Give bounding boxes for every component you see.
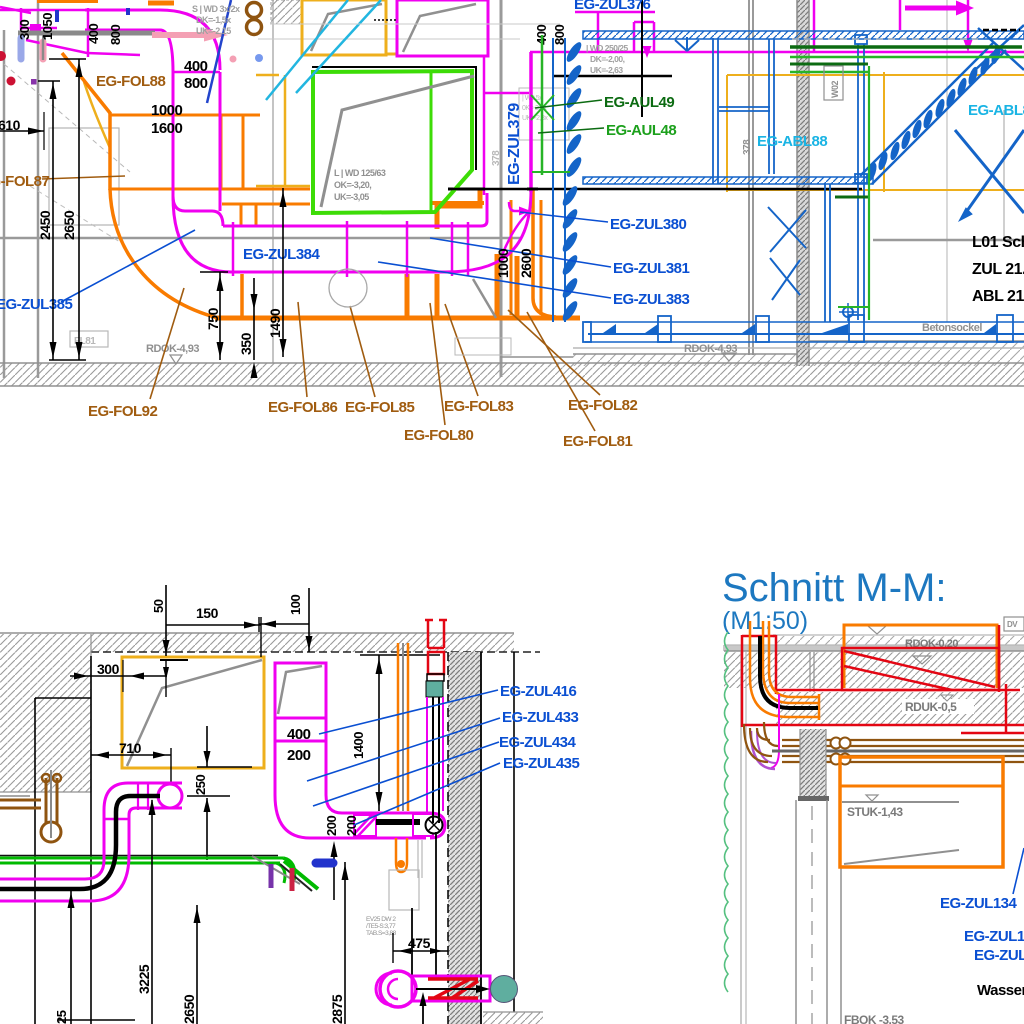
orange duct rung xyxy=(240,204,243,226)
orange end cap xyxy=(818,694,821,720)
red duct section in pump line xyxy=(428,979,478,998)
svg-text:EG-ZUL134: EG-ZUL134 xyxy=(940,895,1018,912)
magenta duct rung x468 xyxy=(467,222,470,276)
orange stub top xyxy=(148,1,174,6)
svg-text:2650: 2650 xyxy=(61,210,77,240)
grid line vertical thin xyxy=(946,0,948,322)
diagonal louver band border 1 xyxy=(860,43,993,176)
svg-text:EG-FOL83: EG-FOL83 xyxy=(444,398,514,415)
svg-text:250: 250 xyxy=(193,775,208,795)
orange drop from duct xyxy=(533,190,556,317)
red bottom right line xyxy=(961,732,1024,735)
orange rung below duct xyxy=(240,274,244,318)
magenta upper elbow inner xyxy=(129,808,182,815)
svg-text:2600: 2600 xyxy=(518,248,534,278)
magenta vertical duct walls xyxy=(172,72,175,196)
grid line horizontal thin xyxy=(258,38,520,40)
svg-text:UK=-3,05: UK=-3,05 xyxy=(334,192,369,202)
black pipe through duct xyxy=(376,819,420,825)
orange duct horizontal y189 xyxy=(111,188,310,191)
gray pipe bar xyxy=(18,31,155,36)
svg-text:475: 475 xyxy=(408,935,431,951)
leader EG-ZUL385 xyxy=(61,230,195,302)
gold line horizontal xyxy=(256,185,310,188)
orange main line xyxy=(215,316,580,321)
brown clamp rings xyxy=(247,3,262,18)
orange duct rung xyxy=(255,204,258,226)
svg-text:710: 710 xyxy=(119,740,142,756)
svg-text:EG-FOL82: EG-FOL82 xyxy=(568,397,638,414)
svg-text:RDUK-0,5: RDUK-0,5 xyxy=(905,700,957,714)
svg-text:EG-ZUL376: EG-ZUL376 xyxy=(574,0,651,13)
left wall lines under slab xyxy=(740,652,742,1024)
svg-text:Schnitt M-M:: Schnitt M-M: xyxy=(722,566,946,610)
svg-text:800: 800 xyxy=(184,75,208,92)
dim vertical 2875 xyxy=(344,862,346,1024)
dim 750 line xyxy=(219,272,221,360)
red duct horizontal lines xyxy=(776,689,1020,692)
brown riser symbol xyxy=(41,822,61,842)
green corner at base xyxy=(838,306,869,308)
magenta riser x814 xyxy=(813,0,816,52)
blue unit left wall xyxy=(552,38,554,322)
gold line horizontal xyxy=(256,74,279,77)
pink dot xyxy=(230,56,237,63)
magenta elbow outer sweep xyxy=(173,196,232,272)
small blue box lower xyxy=(855,174,867,183)
black pipe elbow xyxy=(760,636,818,708)
room outline light xyxy=(49,128,119,225)
red fire damper box xyxy=(842,648,999,690)
orange duct horizontal y204 xyxy=(222,203,310,206)
leader EG-FOL81 xyxy=(527,312,595,431)
svg-text:EG-ZUL381: EG-ZUL381 xyxy=(613,260,690,277)
svg-text:EG-FOL87: EG-FOL87 xyxy=(0,173,50,190)
magenta vertical duct walls lower xyxy=(103,810,106,862)
svg-text:EV25 DW 2: EV25 DW 2 xyxy=(366,916,396,923)
bottom black tick xyxy=(58,1019,135,1021)
orange rung below duct xyxy=(515,256,520,318)
magenta duct cap xyxy=(173,196,223,226)
svg-text:50: 50 xyxy=(151,599,166,613)
blue vertical pair under diagonal band xyxy=(857,44,859,320)
blue dot xyxy=(255,54,263,62)
black riser x642 xyxy=(641,0,643,117)
gray pipe in shaft xyxy=(402,643,404,811)
brown pipe 2 xyxy=(782,755,1024,757)
small blue box upper xyxy=(855,35,867,44)
svg-text:100: 100 xyxy=(288,595,303,615)
gray blade in gold box xyxy=(127,660,262,766)
grid line horizontal xyxy=(0,237,520,240)
dim vertical 2650 xyxy=(196,905,198,1024)
green pipe short xyxy=(790,71,868,74)
WD label box xyxy=(519,88,569,140)
orange duct horizontal xyxy=(110,114,260,117)
leader EG-FOL82 xyxy=(508,310,600,395)
svg-text:DV: DV xyxy=(1007,620,1018,629)
svg-text:EG-ABL8: EG-ABL8 xyxy=(968,102,1024,119)
gold duct stub xyxy=(386,53,396,56)
left wall hatched block xyxy=(0,634,91,792)
orange rung below duct xyxy=(495,254,500,318)
magenta duct rung x407 xyxy=(406,221,409,277)
magenta damper hatched box xyxy=(354,815,376,836)
yellow curve xyxy=(84,82,110,148)
pump duct xyxy=(412,976,490,1001)
ceiling soffit dashed line xyxy=(91,651,540,653)
dark green stub xyxy=(835,196,868,199)
magenta duct bottom line xyxy=(230,271,445,274)
interior wall hatched column xyxy=(800,729,826,798)
green grille X symbol xyxy=(531,95,554,120)
unit divider x713 xyxy=(712,38,714,184)
ceiling hatch band xyxy=(91,633,514,652)
svg-text:TAB.S=3,88: TAB.S=3,88 xyxy=(366,930,397,937)
black bar below green box xyxy=(448,188,485,191)
W02 shaft box xyxy=(824,66,843,100)
svg-text:(M1:50): (M1:50) xyxy=(722,607,808,635)
svg-text:1000: 1000 xyxy=(495,248,511,278)
svg-text:150: 150 xyxy=(196,605,219,621)
pink arrow fitting xyxy=(152,32,206,38)
gray triangle on orange duct xyxy=(913,656,931,664)
gray damper blade in gold box xyxy=(311,4,382,51)
svg-text:EG-FOL86: EG-FOL86 xyxy=(268,399,338,416)
svg-text:L | WD 125/63: L | WD 125/63 xyxy=(334,168,386,178)
svg-text:W02: W02 xyxy=(830,81,840,99)
svg-text:EG-ABL88: EG-ABL88 xyxy=(757,133,827,150)
dark green pipe short xyxy=(790,63,868,66)
magenta duct end cap rounded xyxy=(430,813,445,838)
black flow arrow xyxy=(416,988,482,990)
dashed diagonal construction line xyxy=(4,64,130,172)
leader EG-ZUL134 xyxy=(1013,848,1024,894)
teal circle end xyxy=(491,976,518,1003)
blue crows foot symbol xyxy=(675,37,699,51)
gray speckle screed band xyxy=(723,645,1024,651)
green diagonal pipe xyxy=(284,861,318,889)
svg-text:800: 800 xyxy=(108,25,123,45)
grid line horizontal right xyxy=(873,239,1024,242)
blue pipe cap xyxy=(316,859,333,868)
svg-text:378: 378 xyxy=(491,150,502,166)
upper thin slab hatch xyxy=(773,636,1024,645)
magenta supply duct section upper box xyxy=(275,663,326,718)
magenta stub with down arrow xyxy=(967,0,970,44)
green box inner vertical xyxy=(430,73,433,212)
leader EG-ZUL383 xyxy=(378,262,611,298)
blue pipe stub xyxy=(55,10,59,22)
blue X behind wall xyxy=(768,207,806,248)
svg-text:378: 378 xyxy=(742,139,753,155)
gray pedestal box xyxy=(455,338,511,355)
magenta riser from plenum xyxy=(483,56,486,195)
diagonal band top corner lines xyxy=(975,25,1024,70)
magenta riser x900 xyxy=(899,0,902,30)
blue X behind wall lower xyxy=(770,258,800,295)
svg-text:Wasserz: Wasserz xyxy=(977,982,1024,999)
svg-text:EG-ZUL383: EG-ZUL383 xyxy=(613,291,690,308)
magenta duct stub to arrow xyxy=(509,202,522,211)
orange assembly near green box xyxy=(437,190,480,229)
pink capsule xyxy=(40,42,47,59)
grid line vertical xyxy=(272,0,274,363)
svg-text:| WD 250/25: | WD 250/25 xyxy=(586,43,629,53)
orange duct above slab xyxy=(844,625,997,688)
wall cap dark xyxy=(798,796,829,801)
gold line vertical xyxy=(284,75,287,187)
gray circle xyxy=(329,269,367,307)
magenta upper elbow outer xyxy=(104,783,182,810)
gray dashed line under band xyxy=(792,38,978,40)
gray slope line xyxy=(844,850,959,864)
magenta duct corner inner xyxy=(85,30,173,72)
leader EG-FOL92 xyxy=(150,288,184,399)
svg-text:UK=-2,15: UK=-2,15 xyxy=(196,26,231,36)
svg-text:L01 Schw: L01 Schw xyxy=(972,234,1024,251)
black riser below pump xyxy=(422,1002,424,1024)
svg-text:STUK-1,43: STUK-1,43 xyxy=(847,805,903,819)
svg-text:/TE5-S:3,77: /TE5-S:3,77 xyxy=(366,923,396,930)
svg-text:DK=-1,5x: DK=-1,5x xyxy=(196,15,231,25)
leader EG-ZUL380 xyxy=(520,212,608,222)
gray hanger lines below duct xyxy=(417,840,419,878)
left wall lines xyxy=(34,698,36,1024)
svg-text:2875: 2875 xyxy=(329,994,345,1024)
gray blade in magenta box xyxy=(278,666,322,714)
magenta flange circle xyxy=(158,784,182,808)
svg-text:1000: 1000 xyxy=(151,102,183,119)
svg-text:EG-ZUL384: EG-ZUL384 xyxy=(243,246,321,263)
floor hatch band A1 xyxy=(573,354,797,366)
svg-text:2450: 2450 xyxy=(37,210,53,240)
magenta duct top-left pieces xyxy=(0,7,160,57)
svg-text:750: 750 xyxy=(205,307,221,330)
svg-text:EG-AUL49: EG-AUL49 xyxy=(604,94,674,111)
black pipe risers xyxy=(432,697,434,823)
teal valve fill xyxy=(426,681,443,697)
svg-text:FBOK -3,53: FBOK -3,53 xyxy=(844,1013,905,1024)
wall column hatched xyxy=(797,0,809,366)
orange duct top-left xyxy=(37,0,98,3)
EV25 tag box xyxy=(389,870,419,910)
dark green pipe top xyxy=(790,45,1022,49)
magenta duct EG-ZUL376 stubs xyxy=(575,12,655,52)
magenta duct rung x233 xyxy=(232,222,235,276)
orange risers in shaft xyxy=(397,643,400,811)
dim line x79 2650 xyxy=(78,59,80,360)
gray damper blade in magenta plenum xyxy=(403,4,476,52)
gray diagonal at orange rungs xyxy=(473,279,496,318)
magenta elbow inner xyxy=(326,795,430,813)
magenta duct rung 200 xyxy=(275,740,326,743)
svg-text:1400: 1400 xyxy=(351,732,366,759)
gray stub vertical xyxy=(42,31,46,40)
red pipe riser top xyxy=(425,620,447,648)
leader EG-AUL48 xyxy=(538,128,604,133)
blue pipe stub 2 xyxy=(126,8,130,15)
svg-text:300: 300 xyxy=(97,661,120,677)
wall lines below xyxy=(795,800,797,1024)
svg-text:2650: 2650 xyxy=(181,994,197,1024)
magenta branch curve to ZUL379 xyxy=(501,210,531,258)
black segment top right xyxy=(983,29,1020,32)
bottom right hatch xyxy=(483,1012,543,1024)
magenta duct horizontal main y52 xyxy=(530,51,1024,54)
dim line x53 2450 xyxy=(52,81,54,360)
orange rung below duct xyxy=(405,274,410,318)
cyan diagonal duct line 1 xyxy=(266,0,348,100)
red damper diagonals xyxy=(844,651,995,687)
damper motor circle xyxy=(426,817,443,834)
green intake grille line xyxy=(541,35,544,175)
wall line vertical center xyxy=(500,0,503,377)
blue target symbol xyxy=(843,307,853,317)
svg-text:1600: 1600 xyxy=(151,120,183,137)
dim vertical 3225 xyxy=(151,800,153,1024)
blue hatched band top xyxy=(583,31,1024,39)
svg-text:S | WD 3x/2x: S | WD 3x/2x xyxy=(192,4,240,14)
magenta line in shaft xyxy=(771,694,779,768)
labels EG-ZUL416 group xyxy=(319,690,498,734)
green pipe xyxy=(790,56,1024,59)
orange duct vertical drop xyxy=(108,112,112,190)
floor hatch band B xyxy=(0,363,1024,386)
leader EG-FOL80 xyxy=(430,303,445,425)
black fitting box xyxy=(427,674,444,681)
magenta duct bottom elbow inner xyxy=(0,860,104,879)
svg-text:200: 200 xyxy=(344,816,359,836)
magenta duct rung x347 xyxy=(346,221,349,277)
grid line vertical xyxy=(37,0,40,378)
unit base channel lines xyxy=(585,321,1024,323)
green pipes horizontal xyxy=(0,855,278,857)
magenta duct corner outer xyxy=(85,10,220,70)
svg-text:1050: 1050 xyxy=(40,13,55,40)
svg-text:300: 300 xyxy=(17,20,32,40)
svg-text:EG-AUL48: EG-AUL48 xyxy=(606,122,676,139)
gold room rectangle right xyxy=(727,74,1024,76)
blue hatched band middle xyxy=(583,177,873,184)
svg-text:200: 200 xyxy=(287,747,311,764)
gold duct box section xyxy=(122,657,264,768)
orange duct riser xyxy=(220,115,223,189)
grid line vertical xyxy=(3,30,6,378)
orange diagonal duct xyxy=(62,53,110,113)
diagonal band louver blades xyxy=(866,162,879,182)
base channel gray footing line xyxy=(573,347,1024,349)
magenta elbow outer xyxy=(275,795,426,838)
dark blue diagonal line xyxy=(207,0,231,103)
svg-text:ZUL 21.9: ZUL 21.9 xyxy=(972,261,1024,278)
orange bar below green box xyxy=(431,201,484,205)
svg-text:EG-FOL81: EG-FOL81 xyxy=(563,433,633,450)
orange duct riser xyxy=(242,115,245,189)
FL81 box xyxy=(70,331,108,347)
black line y189 xyxy=(448,188,862,191)
leader EG-ZUL381 xyxy=(430,238,611,267)
svg-text:RDOK-4,93: RDOK-4,93 xyxy=(146,343,199,355)
magenta pipe duct bottom elbow outer xyxy=(0,855,129,901)
svg-text:EG-ZUL: EG-ZUL xyxy=(974,947,1024,964)
gray pipe centerline xyxy=(772,750,1024,753)
dim 350 line xyxy=(253,278,255,360)
pump rings xyxy=(380,971,416,1007)
gray level line STUK xyxy=(842,801,959,803)
magenta duct rungs xyxy=(137,783,139,810)
svg-text:EG-ZUL380: EG-ZUL380 xyxy=(610,216,687,233)
magenta duct rung x452 xyxy=(451,222,454,276)
unit inner verticals right room xyxy=(824,184,826,322)
orange rung below duct xyxy=(435,274,440,318)
svg-text:200: 200 xyxy=(324,816,339,836)
unit divider x772 xyxy=(768,39,770,174)
svg-text:EG-ZUL416: EG-ZUL416 xyxy=(500,683,577,700)
orange hook below duct xyxy=(396,838,407,872)
orange sweep arc xyxy=(110,189,218,318)
svg-text:UK=-2,63: UK=-2,63 xyxy=(590,65,623,75)
magenta riser lines beside pipe xyxy=(426,697,428,813)
magenta box at damper motor xyxy=(413,814,433,836)
small DU box xyxy=(1004,617,1024,631)
louver blades upper xyxy=(564,40,584,64)
green damper box xyxy=(313,71,472,213)
svg-text:EG-ZUL435: EG-ZUL435 xyxy=(503,755,580,772)
arrow up below duct xyxy=(333,845,335,900)
red pipe box xyxy=(428,652,444,674)
magenta duct right curve up xyxy=(445,190,531,272)
brown pipe unions xyxy=(831,738,842,749)
leader EG-FOL87 xyxy=(42,176,125,179)
magenta duct rung y72 xyxy=(173,71,220,74)
magenta duct top line xyxy=(223,193,487,226)
orange STUK duct box xyxy=(840,757,1003,867)
magenta duct rung 400 xyxy=(275,717,326,720)
right wall hatched strip xyxy=(448,652,481,1024)
magenta supply arrow xyxy=(905,6,957,11)
gray construction line y24 xyxy=(270,23,560,25)
svg-text:EG-ZUL385: EG-ZUL385 xyxy=(0,296,73,313)
svg-text:Betonsockel: Betonsockel xyxy=(922,322,982,334)
violet elbow xyxy=(751,731,775,769)
base channel posts xyxy=(583,322,591,342)
svg-text:EG-FOL85: EG-FOL85 xyxy=(345,399,415,416)
svg-text:EG-FOL92: EG-FOL92 xyxy=(88,403,158,420)
red dot xyxy=(0,51,6,61)
svg-text:25: 25 xyxy=(54,1010,69,1024)
svg-text:400: 400 xyxy=(184,58,208,75)
svg-text:DK=-2,00,: DK=-2,00, xyxy=(590,54,625,64)
main slab hatch xyxy=(724,652,1024,688)
svg-text:OK=-3,20,: OK=-3,20, xyxy=(334,180,371,190)
svg-text:EG-ZUL379: EG-ZUL379 xyxy=(506,103,523,185)
dim 1490 line xyxy=(282,188,284,357)
orange elbow c xyxy=(769,621,818,697)
magenta rung in riser xyxy=(104,818,129,821)
gold duct box top xyxy=(302,0,386,55)
black wall line above unit xyxy=(553,75,672,78)
green pipe bends xyxy=(283,858,295,880)
svg-text:EG-ZUL434: EG-ZUL434 xyxy=(499,734,577,751)
leader EG-AUL49 xyxy=(535,100,602,108)
leader EG-FOL83 xyxy=(445,304,478,396)
red right verticals xyxy=(998,625,1001,692)
orange elbow b xyxy=(763,621,818,703)
magenta damper blob xyxy=(30,24,41,33)
magenta main riser to top xyxy=(529,52,533,192)
brown pipes to left xyxy=(0,799,41,802)
